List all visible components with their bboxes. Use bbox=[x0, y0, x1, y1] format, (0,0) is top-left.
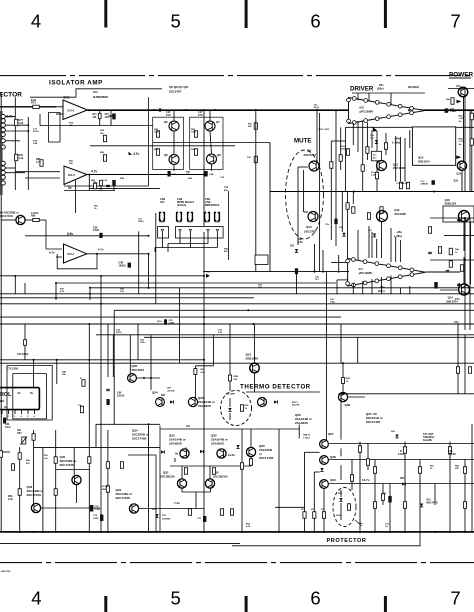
svg-text:R4b: R4b bbox=[459, 138, 464, 141]
diode between drivers bbox=[342, 233, 345, 236]
svg-text:6v: 6v bbox=[30, 391, 34, 395]
svg-text:100/1b: 100/1b bbox=[119, 264, 127, 267]
wire right column verticals bbox=[463, 97, 465, 161]
svg-text:C5P: C5P bbox=[168, 320, 173, 322]
svg-text:VR1: VR1 bbox=[17, 432, 22, 435]
svg-text:100k: 100k bbox=[140, 342, 146, 344]
svg-text:D51: D51 bbox=[400, 477, 405, 480]
svg-text:2.4k: 2.4k bbox=[8, 498, 13, 501]
wire horizontal y127.3 below IC6 bbox=[345, 126, 474, 128]
resistor boxes lower-left of block bbox=[94, 183, 97, 189]
resistor R80 4.7k bbox=[40, 160, 43, 167]
svg-text:Q27: Q27 bbox=[328, 432, 334, 436]
control box bottom pins bbox=[1, 410, 3, 414]
grid tick (top, between 5 and 6) bbox=[245, 0, 248, 28]
wire Q27 emitter rail y441 bbox=[328, 443, 474, 445]
svg-text:R11x: R11x bbox=[157, 321, 163, 323]
grid tick (bottom, between 6 and 7) bbox=[384, 596, 387, 612]
svg-text:THERMO DETECTOR: THERMO DETECTOR bbox=[240, 384, 311, 391]
input connector pin 12 bbox=[1, 181, 5, 185]
svg-text:2SA933S: 2SA933S bbox=[169, 442, 182, 446]
wires above IC6 to supply rail bbox=[368, 93, 370, 101]
svg-text:SVD3: SVD3 bbox=[336, 515, 342, 517]
resistor R90b bbox=[103, 155, 106, 162]
wire mute internal verticals bbox=[297, 167, 299, 245]
svg-text:4.7/1/5: 4.7/1/5 bbox=[31, 212, 39, 215]
capacitor C10 feedback bbox=[109, 114, 113, 116]
wire horizontal y429 center bbox=[160, 428, 300, 430]
vertical wires below IC6 bbox=[330, 141, 332, 192]
diode near x320 (vertical) bbox=[320, 468, 323, 471]
transistor Q23 bbox=[188, 397, 197, 406]
wire riser x326.5 (to Q27) bbox=[326, 272, 328, 440]
wire IC7 output to right bbox=[426, 271, 461, 273]
svg-text:ISOLATOR AMP: ISOLATOR AMP bbox=[49, 80, 103, 87]
svg-text:6: 6 bbox=[310, 588, 320, 609]
svg-text:2SC2787: 2SC2787 bbox=[304, 153, 317, 157]
svg-text:2.2k: 2.2k bbox=[298, 241, 303, 244]
wire Q9 collector to bus bbox=[316, 110, 318, 162]
svg-text:2SC2787: 2SC2787 bbox=[304, 230, 317, 234]
wire mid-right horizontals bbox=[430, 217, 474, 219]
resistor R75 feedback vertical bbox=[98, 113, 101, 118]
svg-text:4.7v: 4.7v bbox=[133, 152, 139, 156]
svg-text:2SA933S: 2SA933S bbox=[211, 442, 224, 446]
wire Q14 base from left bbox=[440, 289, 458, 291]
svg-text:8.9v: 8.9v bbox=[64, 96, 70, 100]
svg-text:1/16: 1/16 bbox=[198, 114, 203, 117]
transistor Q5 bbox=[169, 121, 179, 131]
junction dot bus x409 bbox=[408, 109, 410, 111]
transistor Q27 bbox=[320, 440, 329, 449]
big box right edge x228 bbox=[227, 191, 229, 260]
svg-text:0.04B: 0.04B bbox=[450, 110, 456, 113]
transistor Q33 (bold) bbox=[180, 449, 189, 458]
resistor R41.08 mid bbox=[106, 486, 109, 493]
sheet top border (dash-dot) bbox=[0, 75, 474, 77]
wire pair rails y142.5 bbox=[153, 142, 270, 144]
box outline around Q24 block bbox=[159, 426, 161, 533]
svg-text:IC5-1: IC5-1 bbox=[68, 252, 75, 256]
svg-text:R9b: R9b bbox=[224, 249, 229, 251]
svg-text:41E: 41E bbox=[224, 189, 228, 192]
wire stubs above control block bbox=[24, 324, 26, 340]
svg-text:1.7Mxx: 1.7Mxx bbox=[303, 437, 311, 439]
socket pin arrow bbox=[216, 229, 219, 231]
svg-text:R9b: R9b bbox=[188, 178, 193, 180]
svg-text:0.0x3: 0.0x3 bbox=[398, 453, 405, 456]
transistor Q12 (bold) bbox=[377, 211, 388, 222]
wire Q5/Q7 collectors to bus bbox=[173, 110, 175, 121]
svg-text:225/1.3: 225/1.3 bbox=[341, 149, 349, 151]
emitter resistor boxes Q27-29 bbox=[303, 512, 306, 519]
svg-text:LM?: LM? bbox=[167, 388, 172, 390]
wire riser x113 bbox=[112, 335, 114, 377]
input connector pin 10 bbox=[1, 171, 5, 175]
svg-text:Q15: Q15 bbox=[454, 180, 459, 183]
svg-text:13.7v: 13.7v bbox=[362, 478, 370, 482]
wire riser x204 (long) bbox=[203, 232, 205, 532]
svg-text:R4B 1k: R4B 1k bbox=[303, 434, 311, 437]
svg-text:5: 5 bbox=[171, 588, 181, 609]
svg-text:2SC2787: 2SC2787 bbox=[169, 90, 182, 94]
wire horizontal right y235 bbox=[444, 234, 474, 236]
wire riser x96 y424-447 bbox=[95, 424, 97, 447]
op-amp IC4-1 bbox=[63, 100, 88, 120]
resistor R77 2.2k vertical (left) bbox=[15, 119, 18, 126]
diode D51 top right block bbox=[236, 445, 239, 448]
resistor inside ellipse bbox=[240, 405, 243, 412]
wire left bus risers bbox=[14, 276, 16, 294]
capacitor near Q35 bbox=[106, 388, 110, 390]
svg-text:IC4-2: IC4-2 bbox=[68, 173, 75, 177]
wire stub x299 Q26 bbox=[298, 425, 300, 439]
svg-text:PROTECTOR: PROTECTOR bbox=[327, 538, 367, 544]
svg-text:7: 7 bbox=[450, 11, 460, 32]
svg-text:HG: HG bbox=[0, 399, 5, 403]
wire verticals between drivers bbox=[330, 192, 332, 241]
grid tick (bottom, between 5 and 6) bbox=[245, 596, 248, 612]
svg-text:Q29: Q29 bbox=[330, 478, 336, 482]
resistor boxes far bottom-left extra bbox=[32, 434, 35, 441]
wire left edge pins IC7 bbox=[331, 262, 347, 264]
wire IC4-2 output right bbox=[87, 174, 204, 176]
svg-text:27v: 27v bbox=[454, 320, 459, 324]
svg-text:IC4-1: IC4-1 bbox=[68, 108, 75, 112]
emitter cap C18 dark (below Q8) bbox=[205, 171, 208, 177]
emitter cap C16 dark (below Q6) bbox=[168, 171, 171, 177]
wire horizontal y424 left block bbox=[96, 423, 160, 425]
svg-text:100p: 100p bbox=[330, 302, 336, 304]
input connector body (left edge) bbox=[0, 111, 3, 195]
svg-text:D11: D11 bbox=[290, 245, 295, 248]
dark cap between drivers bbox=[334, 219, 337, 225]
wire bus y317 bbox=[0, 316, 341, 318]
wire Q45 row horizontal y469.5 bbox=[56, 469, 90, 471]
svg-text:100k: 100k bbox=[191, 132, 197, 134]
wire stub x138 y324-360 bbox=[137, 324, 139, 360]
wire IC4-2 down to IC5 bbox=[75, 180, 77, 213]
svg-text:6: 6 bbox=[310, 11, 320, 32]
label 4.7v with marker bbox=[129, 152, 133, 156]
svg-text:0.022: 0.022 bbox=[93, 229, 100, 232]
transistor Q28 bbox=[320, 456, 329, 465]
svg-text:ECTOR: ECTOR bbox=[0, 92, 22, 99]
wire Q21 verticals bbox=[254, 324, 256, 363]
svg-text:R6b: R6b bbox=[455, 466, 460, 468]
wire pair rails y145.8 bbox=[90, 145, 235, 147]
svg-text:Q9: Q9 bbox=[307, 149, 311, 153]
resistor boxes between drivers bbox=[346, 203, 349, 210]
transistor Q26 bbox=[258, 398, 267, 407]
wire bottom-left verticals bbox=[19, 447, 21, 532]
wire Q36 connections bbox=[342, 363, 344, 392]
resistor R10k below bbox=[80, 406, 83, 413]
wire riser x89 (control) bbox=[88, 324, 90, 447]
svg-text:3.3mfd: 3.3mfd bbox=[448, 453, 456, 456]
transistor Q45 (bold ring) bbox=[72, 475, 81, 484]
wire y507 horizontal center-right bbox=[275, 506, 305, 508]
wire bus y288 bbox=[90, 287, 474, 289]
svg-text:8.9v: 8.9v bbox=[7, 115, 14, 119]
svg-text:4.7v: 4.7v bbox=[49, 251, 55, 255]
svg-text:1/16: 1/16 bbox=[166, 114, 171, 117]
resistor boxes bottom-center bbox=[184, 468, 187, 475]
transistor Q30 (bold) bbox=[205, 479, 214, 488]
junction dots rails mid bbox=[203, 316, 205, 318]
wire left risers to rails bbox=[33, 360, 35, 388]
input connector pin 6 bbox=[1, 139, 5, 143]
thermo dashed ellipse bbox=[221, 391, 252, 426]
output transistor Q15 (bold, right edge) bbox=[457, 161, 466, 170]
diode D21 right of Q24 bbox=[170, 400, 173, 403]
junction dots left rails bbox=[14, 275, 16, 277]
grid tick (top, between 4 and 5) bbox=[104, 0, 107, 28]
transistor Q21 (bold) bbox=[250, 363, 260, 373]
transistor Q31 (bold) bbox=[177, 479, 186, 488]
transistor Q24 (mid) bbox=[156, 398, 165, 407]
wire bus y276 bbox=[0, 275, 204, 277]
wire riser x148 mid bbox=[148, 276, 150, 288]
svg-text:MUTE: MUTE bbox=[294, 138, 312, 145]
svg-text:(−28v): (−28v) bbox=[392, 140, 400, 144]
svg-text:225/16: 225/16 bbox=[117, 394, 125, 397]
input connector pin 9 bbox=[1, 166, 5, 170]
svg-text:+5C/7B: +5C/7B bbox=[167, 390, 175, 392]
svg-text:ROL: ROL bbox=[0, 392, 12, 398]
extra resistor boxes bottom right bbox=[350, 475, 353, 482]
svg-text:7.3v: 7.3v bbox=[174, 501, 180, 505]
svg-text:14.2v: 14.2v bbox=[228, 453, 236, 457]
svg-text:0v: 0v bbox=[175, 452, 179, 456]
resistors on x255.8 bbox=[254, 123, 257, 130]
wire IC5 region vertical x148 down bbox=[148, 254, 150, 276]
junction dots bottom bus bbox=[19, 531, 21, 533]
svg-text:47k: 47k bbox=[17, 429, 22, 432]
wire riser x56 x90 joints bbox=[55, 282, 57, 284]
wire Q28 emitter rail y459 bbox=[328, 459, 474, 461]
wire IC5-1 feedback below bbox=[57, 254, 97, 269]
mute dashed ellipse bbox=[286, 150, 324, 239]
svg-text:22/16: 22/16 bbox=[116, 332, 122, 334]
svg-text:0.005: 0.005 bbox=[93, 518, 99, 520]
emitter arrow Q16 top bbox=[457, 100, 462, 104]
svg-text:2SB1248: 2SB1248 bbox=[246, 357, 259, 361]
right edge resistor boxes lower bbox=[456, 367, 459, 374]
svg-text:47B/3B: 47B/3B bbox=[421, 183, 429, 186]
wire x148 to IC4-2 bbox=[64, 185, 149, 187]
capacitor C16 on bus bbox=[158, 108, 160, 112]
wire riser x148.5 bottom left bbox=[148, 424, 150, 532]
svg-text:2SC1740S: 2SC1740S bbox=[132, 437, 147, 441]
resistor R85 100k bbox=[156, 131, 159, 138]
diode at left edge of center block bbox=[161, 450, 164, 453]
svg-text:2SB1154: 2SB1154 bbox=[418, 160, 430, 164]
wire rail y360 bbox=[0, 359, 204, 361]
resistor inside protector ellipse bbox=[347, 504, 350, 511]
driver IC7 uPC1298V bbox=[348, 259, 426, 287]
svg-text:10/16: 10/16 bbox=[138, 221, 144, 223]
svg-text:11nb: 11nb bbox=[5, 426, 11, 429]
output transistor package box Q15 bbox=[412, 127, 455, 165]
resistor R8x IC4-2 feedback bbox=[100, 180, 103, 185]
transistor Q9 (mute upper) bbox=[309, 161, 319, 171]
svg-text:4: 4 bbox=[31, 11, 41, 32]
dark cap below Q35 bbox=[107, 399, 110, 405]
svg-text:(2m/1m): (2m/1m) bbox=[177, 204, 186, 207]
diode D3 right column (dark) bbox=[445, 108, 449, 112]
svg-text:LPF: LPF bbox=[160, 201, 165, 204]
svg-text:2SA933S: 2SA933S bbox=[198, 404, 211, 408]
svg-text:Q24: Q24 bbox=[152, 391, 158, 395]
grid tick (top, between 6 and 7) bbox=[384, 0, 387, 28]
wires from connector pins bbox=[5, 116, 15, 118]
resistor R89 100k bbox=[194, 131, 197, 138]
wire left edge vertical x15 bbox=[14, 97, 16, 190]
wire Q7 emitter to Q8 collector bbox=[210, 131, 212, 154]
wire rail y363 bbox=[0, 362, 474, 364]
wire bottom ground bus y532 (thick) bbox=[0, 531, 474, 533]
wire right block verticals bbox=[340, 394, 342, 440]
resistor below Q11 bbox=[375, 172, 378, 179]
wires up from y271.6 to driver region bbox=[314, 244, 316, 272]
variable resistor VR 47k (with diagonal) bbox=[22, 437, 26, 444]
zener diode right (dark) bbox=[420, 504, 423, 507]
svg-text:Q8: Q8 bbox=[217, 153, 221, 157]
resistor R73 8.2k with label bbox=[33, 105, 40, 108]
svg-text:6.2k: 6.2k bbox=[19, 157, 24, 160]
resistor boxes bottom row center bbox=[188, 509, 191, 516]
IC control box (cut at left edge) bbox=[0, 388, 39, 410]
svg-text:2SC1740S: 2SC1740S bbox=[259, 456, 274, 460]
svg-text:27v: 27v bbox=[455, 297, 460, 301]
connector CN3 pins bbox=[177, 213, 179, 221]
input connector pin 4 bbox=[1, 128, 5, 132]
wire bus y283 bbox=[56, 282, 336, 284]
svg-text:D7x: D7x bbox=[427, 500, 432, 502]
wire bus y294 bbox=[0, 293, 474, 295]
wire sub-board box verticals bbox=[255, 110, 257, 272]
capacitor C6x dark at left bbox=[3, 418, 6, 424]
resistor R78 6.2k vertical (left) bbox=[15, 154, 18, 161]
svg-text:μPC1298V: μPC1298V bbox=[360, 109, 374, 113]
svg-text:3w: 3w bbox=[459, 121, 462, 123]
wire Q29 emitter down x324 bbox=[323, 489, 325, 532]
wire bottom-center connections bbox=[185, 447, 187, 449]
svg-text:2SC3623A: 2SC3623A bbox=[160, 475, 176, 479]
wire vertical x28 (input) bbox=[27, 117, 29, 190]
socket pin arrow bbox=[161, 229, 164, 231]
diode small on rail y443 right bbox=[395, 435, 398, 438]
capacitor dark IC4-2 feedback bbox=[112, 180, 115, 186]
diode D11 mute bottom bbox=[295, 249, 298, 252]
svg-text:D21: D21 bbox=[161, 394, 166, 397]
wire stub Q36 collector x357.7 bbox=[357, 337, 359, 363]
svg-text:POWER: POWER bbox=[449, 72, 474, 79]
svg-text:47b: 47b bbox=[26, 462, 30, 465]
diode near Q26 bbox=[274, 400, 277, 403]
wire bus y304 bbox=[0, 303, 474, 305]
svg-text:0v: 0v bbox=[18, 391, 22, 395]
svg-text:R5B: R5B bbox=[234, 376, 239, 378]
dark pin at (296.5,271.5) bbox=[295, 268, 298, 274]
wire loop box Q7-Q8 bbox=[190, 117, 223, 169]
wire riser x151 bbox=[150, 335, 152, 390]
junction dots on bus bbox=[153, 109, 155, 111]
resistor boxes right edge bbox=[470, 113, 473, 120]
sheet left border vertical bbox=[0, 92, 2, 532]
svg-text:4.7v: 4.7v bbox=[91, 170, 97, 174]
op-amp IC5-1 bbox=[64, 244, 87, 263]
wire riser x114.2 (board edge) bbox=[113, 310, 115, 424]
svg-text:N-COMP: N-COMP bbox=[226, 394, 235, 396]
transistor Q32 (bold) bbox=[217, 449, 226, 458]
svg-text:Q36: Q36 bbox=[345, 403, 351, 407]
wire rail y335 bbox=[96, 334, 474, 336]
resistor R47k vertical right of control bbox=[82, 380, 85, 387]
resistor boxes below IC6 bbox=[330, 162, 333, 169]
control block inner frame bbox=[13, 374, 47, 419]
transistor Q35 bbox=[128, 374, 137, 383]
wire rail y394 (right) bbox=[339, 393, 474, 395]
wire bottom rail y543 bbox=[0, 542, 240, 544]
control block outer frame bbox=[7, 366, 52, 421]
connector socket box CN2 bbox=[158, 227, 169, 238]
svg-text:1-22: 1-22 bbox=[459, 118, 464, 120]
grid tick (bottom, between 4 and 5) bbox=[104, 596, 107, 612]
svg-text:26v(28v): 26v(28v) bbox=[408, 85, 419, 89]
diode between Q33 and Q32 bbox=[200, 450, 203, 453]
resistor R4x 4.3k on frame bbox=[194, 369, 197, 375]
wires below IC7 bbox=[352, 283, 354, 294]
svg-text:Q5,Q6,Q7,Q8 :: Q5,Q6,Q7,Q8 : bbox=[169, 85, 189, 89]
resistor box above Q36 bbox=[342, 378, 345, 384]
svg-text:1/2w: 1/2w bbox=[358, 523, 363, 525]
svg-text:μPC1298V: μPC1298V bbox=[359, 271, 373, 275]
sheet bottom border (dash-dot) bbox=[0, 562, 474, 564]
resistor boxes right block bbox=[358, 446, 361, 453]
extra right column boxes bbox=[451, 98, 454, 105]
thermo diode inside ellipse bbox=[228, 408, 231, 411]
transistor Q10 (mute lower) bbox=[308, 212, 318, 222]
transistor Q34 (bold ring) bbox=[129, 504, 138, 513]
svg-text:MA2 47FB: MA2 47FB bbox=[427, 501, 438, 504]
svg-text:Q6: Q6 bbox=[164, 153, 168, 157]
socket pin arrow bbox=[189, 229, 192, 231]
right edge resistor boxes mid bbox=[438, 247, 441, 254]
input connector pin 1 bbox=[1, 114, 5, 118]
diode dark below IC6 bbox=[375, 140, 378, 143]
transistor Q36 bbox=[338, 392, 347, 401]
svg-text:1/50: 1/50 bbox=[105, 117, 110, 119]
svg-text:C1B: C1B bbox=[209, 174, 214, 176]
svg-text:2SC1740S: 2SC1740S bbox=[0, 214, 13, 218]
svg-text:24v: 24v bbox=[186, 425, 191, 428]
svg-text:ARP2782: ARP2782 bbox=[1, 570, 11, 573]
wire feedback verticals bbox=[99, 110, 101, 113]
svg-text:47.0B: 47.0B bbox=[102, 485, 108, 488]
protector dashed ellipse bbox=[333, 488, 356, 527]
svg-text:F1B: F1B bbox=[224, 187, 229, 189]
wire rail y191.5 (driver negative rail) bbox=[270, 191, 474, 193]
svg-text:0v: 0v bbox=[4, 405, 8, 409]
resistor R86 left lower bbox=[156, 149, 159, 156]
svg-text:47/1x: 47/1x bbox=[314, 106, 320, 109]
svg-text:2SC1740S: 2SC1740S bbox=[60, 463, 75, 467]
svg-text:Q28: Q28 bbox=[330, 455, 336, 459]
junction dot IC4-2 output bbox=[88, 174, 90, 176]
transistor Q6 bbox=[169, 155, 179, 165]
